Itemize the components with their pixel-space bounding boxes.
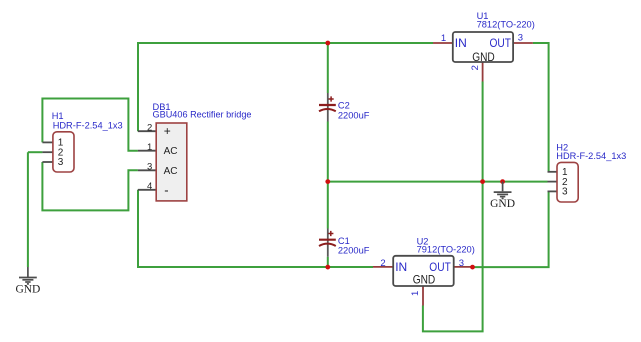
svg-text:HDR-F-2.54_1x3: HDR-F-2.54_1x3 <box>556 151 626 161</box>
svg-text:GND: GND <box>472 50 495 64</box>
svg-text:1: 1 <box>441 33 446 44</box>
svg-text:3: 3 <box>58 157 64 168</box>
svg-text:2: 2 <box>147 122 152 133</box>
svg-text:C1: C1 <box>338 236 350 246</box>
svg-text:2200uF: 2200uF <box>338 246 370 256</box>
svg-text:+: + <box>164 124 171 138</box>
svg-text:3: 3 <box>518 33 523 44</box>
svg-text:HDR-F-2.54_1x3: HDR-F-2.54_1x3 <box>53 121 123 131</box>
svg-text:2: 2 <box>470 65 481 70</box>
svg-text:OUT: OUT <box>490 36 512 50</box>
svg-text:GND: GND <box>490 198 515 210</box>
svg-text:IN: IN <box>455 36 467 50</box>
svg-text:2: 2 <box>380 258 385 269</box>
svg-text:GND: GND <box>413 273 436 287</box>
svg-text:IN: IN <box>395 260 407 274</box>
svg-text:4: 4 <box>147 181 152 192</box>
svg-text:-: - <box>164 183 168 198</box>
svg-text:7912(TO-220): 7912(TO-220) <box>417 245 475 255</box>
svg-text:AC: AC <box>164 146 178 157</box>
svg-text:C2: C2 <box>338 101 350 111</box>
svg-text:3: 3 <box>562 187 568 198</box>
svg-text:3: 3 <box>147 162 152 173</box>
svg-text:3: 3 <box>459 258 464 269</box>
svg-text:GBU406 Rectifier bridge: GBU406 Rectifier bridge <box>153 110 252 120</box>
svg-text:2200uF: 2200uF <box>338 111 370 121</box>
svg-text:GND: GND <box>15 284 40 296</box>
svg-text:AC: AC <box>164 166 178 177</box>
svg-text:1: 1 <box>147 142 152 153</box>
svg-text:1: 1 <box>410 291 421 296</box>
svg-text:7812(TO-220): 7812(TO-220) <box>477 19 535 29</box>
